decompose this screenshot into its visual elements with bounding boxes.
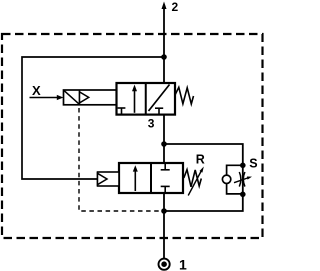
svg-text:1: 1 bbox=[179, 256, 187, 271]
valve V2 left box flow arrow bbox=[133, 165, 138, 191]
svg-text:S: S bbox=[249, 157, 257, 171]
enclosure dashed border bbox=[2, 34, 263, 238]
valve V1 left box blocked port bbox=[118, 108, 126, 115]
throttle adjustment arrow bbox=[234, 177, 252, 183]
wire pilot supply X-branch: top node left, down, to pilot of valve 2 bbox=[22, 57, 164, 179]
valve V2 body (2/2 valve) bbox=[119, 163, 183, 193]
spring adjustment arrow bbox=[188, 167, 204, 196]
node junction dot below flow control bbox=[240, 192, 246, 198]
valve V1 left box flow arrow bbox=[132, 85, 137, 113]
valve V1 return spring bbox=[175, 87, 194, 104]
actuator of valve 1 (pilot box with diagonal and triangle) bbox=[64, 90, 117, 105]
svg-text:X: X bbox=[32, 83, 41, 98]
valve V1 right box blocked port bbox=[155, 108, 163, 114]
valve V2 right box blocked port bottom bbox=[161, 186, 170, 193]
wire main vertical line port 2 to port 1 bbox=[163, 8, 165, 259]
svg-text:R: R bbox=[196, 153, 205, 167]
valve V2 adjustable spring R bbox=[184, 170, 202, 187]
node junction dot bottom bbox=[161, 208, 167, 214]
port 2 arrow bbox=[162, 2, 167, 10]
pilot line dashed (from valve 1 actuator down and right to node) bbox=[79, 108, 161, 211]
svg-text:2: 2 bbox=[172, 0, 179, 14]
wire bypass loop of flow control bbox=[227, 165, 243, 194]
port 1 connection circle bbox=[159, 259, 170, 270]
check valve ball circle bbox=[222, 175, 230, 183]
valve V1 right box diagonal path bbox=[149, 85, 170, 112]
wire right branch loop to flow control bbox=[164, 144, 243, 211]
svg-text:3: 3 bbox=[148, 117, 155, 131]
node junction dot top bbox=[161, 54, 167, 60]
wire X pilot arrow into actuator bbox=[30, 97, 59, 99]
node S junction dot bbox=[240, 163, 246, 169]
valve V1 body (3/2 valve) bbox=[117, 83, 176, 115]
valve V2 right box blocked port top bbox=[161, 163, 170, 170]
throttle arcs bbox=[239, 172, 241, 187]
node junction dot mid bbox=[161, 141, 167, 147]
valve V2 pilot actuator bbox=[98, 172, 120, 186]
